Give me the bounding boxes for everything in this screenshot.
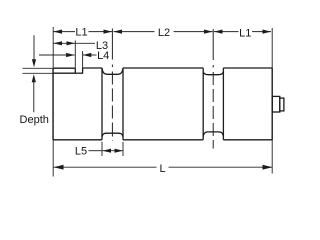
centerline right groove xyxy=(212,29,214,149)
extension line L5 right xyxy=(122,142,124,156)
arrowhead L5 left xyxy=(103,149,112,153)
left groove top dish xyxy=(102,68,123,74)
arrowhead L1 right-left xyxy=(214,30,223,34)
svg-text:Depth: Depth xyxy=(20,114,49,126)
dimension L4 leader line xyxy=(83,54,97,56)
svg-text:L2: L2 xyxy=(158,27,170,39)
bottom surface right segment xyxy=(223,139,272,141)
arrowhead L2 left xyxy=(114,30,123,34)
arrowhead L1 right-right xyxy=(263,30,272,34)
right groove bottom arch xyxy=(203,132,223,137)
bottom surface middle segment xyxy=(123,139,203,141)
svg-text:L1: L1 xyxy=(75,26,87,38)
body right edge xyxy=(271,68,273,140)
dimension L5 line xyxy=(103,150,124,152)
dimension L4 tail line xyxy=(39,54,75,56)
connector nub xyxy=(280,98,284,111)
arrowhead L left xyxy=(54,165,64,170)
svg-text:L1: L1 xyxy=(239,27,251,39)
notch right edge xyxy=(82,68,84,73)
top surface notch to left groove xyxy=(83,67,102,69)
body left edge xyxy=(52,68,54,140)
arrowhead depth down xyxy=(32,59,36,67)
depth extension top line xyxy=(23,67,54,69)
right groove right wall xyxy=(222,68,224,140)
arrowhead depth up xyxy=(32,74,36,82)
extension line notch left (x=75) xyxy=(74,41,76,69)
dimension L1 left line xyxy=(54,31,76,33)
left groove left wall xyxy=(101,68,103,140)
extension line notch right (x=82.6) xyxy=(82,51,84,68)
arrowhead L right xyxy=(263,165,273,170)
right groove top dish xyxy=(203,72,223,75)
right groove left wall xyxy=(202,68,204,140)
top surface right of right groove xyxy=(223,67,272,69)
extension line right (body right edge projection) xyxy=(271,28,273,174)
dimension L5 leader xyxy=(89,150,102,152)
arrowhead L4 left-pointing xyxy=(83,53,92,57)
extension line L5 left xyxy=(101,142,103,156)
dimension L3 line xyxy=(54,42,76,44)
depth extension bottom line xyxy=(23,72,54,74)
depth down arrow shaft xyxy=(33,35,35,61)
bottom surface left segment xyxy=(53,139,102,141)
arrowhead L2 right xyxy=(204,30,213,34)
arrowhead L1 left-right xyxy=(104,30,113,34)
arrowhead L1 left xyxy=(54,30,63,34)
arrowhead L3 right xyxy=(67,41,76,45)
left groove right wall xyxy=(122,68,124,140)
svg-text:L: L xyxy=(159,163,165,175)
slot bottom line xyxy=(53,72,75,74)
svg-text:L4: L4 xyxy=(97,50,109,62)
arrowhead L4 right-pointing xyxy=(66,53,75,57)
connector body xyxy=(272,96,280,112)
top surface between grooves xyxy=(123,67,203,69)
left groove bottom arch xyxy=(102,133,123,137)
body top surface left segment xyxy=(53,67,75,69)
arrowhead L3 left xyxy=(54,41,63,45)
extension line left (body left edge projection) xyxy=(52,27,54,177)
notch left edge xyxy=(74,68,76,73)
dimension L2 line xyxy=(114,31,155,33)
depth up arrow shaft xyxy=(33,80,35,112)
notch bottom xyxy=(75,72,83,74)
dimension L1 right line xyxy=(214,31,239,33)
dimension L line xyxy=(54,166,157,168)
arrowhead L5 right xyxy=(115,149,124,153)
svg-text:L5: L5 xyxy=(75,146,87,158)
centerline left groove xyxy=(111,29,113,142)
